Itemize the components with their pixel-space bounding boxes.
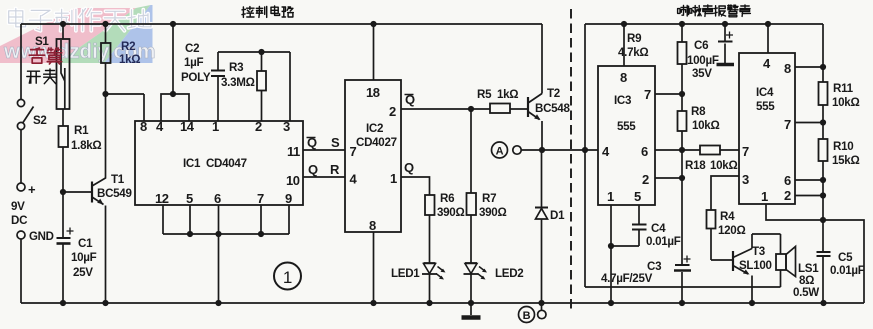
pin labels IC2 left [350,144,358,187]
resistor R4 [707,210,716,229]
watermark text dianzizhizuotiandi [9,9,151,31]
node R9 rail [679,21,685,27]
wire IC3 pin2 [655,177,682,179]
resistor R11 [819,67,828,139]
wire R2 to node [105,63,107,94]
svg-text:555: 555 [617,120,636,133]
svg-text:8: 8 [620,70,627,85]
svg-text:1kΩ: 1kΩ [119,53,140,66]
node pin7 R10 [820,119,826,125]
svg-text:S: S [331,135,340,150]
wire IC4 pin2 [795,195,823,197]
svg-text:BC549: BC549 [97,187,132,200]
svg-text:1.8kΩ: 1.8kΩ [71,139,101,152]
svg-text:1: 1 [607,189,614,204]
wire T1 collector [92,94,106,186]
speaker LS1 [776,247,796,288]
svg-text:CD4027: CD4027 [356,136,397,149]
wire IC4 pin1 ground [766,204,823,220]
svg-text:S2: S2 [33,114,47,127]
op-amp U1 IC1 CD4047 box [135,121,303,205]
label Qbar out [405,92,416,107]
node bracket [170,91,176,97]
svg-text:0.01µF: 0.01µF [830,264,865,277]
svg-text:LED1: LED1 [391,267,420,280]
node pin8 rail IC3 [621,21,627,27]
resistor R5 [490,104,510,114]
resistor R8 [678,94,687,131]
svg-text:1: 1 [761,189,768,204]
wire rail right corner [822,24,824,67]
svg-text:1µF: 1µF [184,56,204,69]
node C6 rail [722,21,728,27]
svg-text:T2: T2 [547,87,560,100]
op-amp U3 IC3 555 box [598,66,655,205]
wire feed down [172,24,174,94]
node D1 rail [538,300,544,306]
svg-text:1kΩ: 1kΩ [497,88,518,101]
node C5 rail [820,300,826,306]
svg-text:7: 7 [644,87,651,102]
svg-text:IC4: IC4 [756,86,774,99]
wire Qbar to R5 [401,108,490,110]
wire pin8 to rail [373,232,375,303]
op-amp U4 IC4 555 box [739,53,795,204]
node C1 rail [60,300,66,306]
node pin1 ground junction [820,217,826,223]
node pin1 C4 [608,243,614,249]
svg-text:1: 1 [390,171,397,186]
node pin6 junction [679,147,685,153]
capacitor C5 [817,252,831,303]
wire S1 stub [62,24,64,39]
node pin7 R9 R8 [679,91,685,97]
svg-text:3: 3 [742,172,749,187]
svg-text:B: B [523,310,531,322]
svg-text:555: 555 [756,100,775,113]
svg-text:8: 8 [784,61,791,76]
svg-text:6: 6 [641,144,648,159]
node S1 top [60,21,66,27]
svg-text:R8: R8 [691,105,706,118]
wire to IC1 pin8 [106,94,145,121]
transistor T1 [92,182,106,304]
svg-text:5: 5 [634,189,641,204]
svg-text:7: 7 [350,144,357,159]
svg-text:T1: T1 [111,173,125,186]
svg-text:7: 7 [742,144,749,159]
svg-text:7: 7 [784,117,791,132]
svg-text:2: 2 [389,104,396,119]
wire R18 to IC4 [720,149,739,151]
transistor T2 [528,24,542,150]
svg-text:10: 10 [286,173,300,188]
wire IC4 pin8 [795,66,823,68]
wire LED1 to rail [429,274,431,303]
svg-text:R9: R9 [627,32,642,45]
pin labels IC3 [602,70,651,204]
resistor R6 [425,195,435,215]
wire bracket pins 4 14 [161,94,189,121]
svg-text:T3: T3 [752,245,766,258]
wire S2 to battery+ [20,130,22,183]
node R3 top [258,49,264,55]
node C2R3 feed top [170,21,176,27]
wire Q2 to R [303,176,345,178]
wire bus to rail [218,234,220,303]
terminal battery + [17,183,25,191]
node pin8 R11 [820,64,826,70]
wire IC3 pin7 [655,93,682,95]
capacitor C2 R3 bus [218,51,290,53]
svg-text:SL100: SL100 [739,259,772,272]
diode D1 [535,150,548,303]
svg-text:+: + [28,182,36,197]
svg-text:12: 12 [155,191,169,206]
capacitor C4 [632,225,647,247]
node pin4 rail IC4 [765,21,771,27]
svg-text:Q: Q [404,160,414,175]
svg-text:15kΩ: 15kΩ [832,154,859,167]
node pin8 junction [102,91,108,97]
resistor R10 [819,139,828,161]
svg-text:C2: C2 [185,42,199,55]
svg-text:R7: R7 [482,192,496,205]
wire R1 down to C1 [62,147,64,238]
wire B stub [541,303,543,310]
wire IC1 bottom stubs [163,205,289,234]
resistor R3 [257,52,266,121]
svg-text:0.5W: 0.5W [793,286,819,299]
wire IC3 pin6 [655,149,700,151]
capacitor C3 [674,256,691,304]
wire base T1 [63,191,92,193]
svg-text:0.01µF: 0.01µF [646,235,681,248]
wire top rail right section [585,23,823,25]
node R2 top [102,21,108,27]
svg-text:R11: R11 [833,82,854,95]
wire bottom rail [21,302,864,304]
svg-text:7: 7 [257,191,264,206]
node LED2 rail [468,300,474,306]
resistor R7 [467,193,477,215]
node pin1 rail [608,300,614,306]
svg-text:GND: GND [29,231,54,243]
label kai-guan (switch) [27,69,57,84]
svg-text:8: 8 [369,218,376,233]
wire R6 to LED1 [429,215,431,263]
svg-text:9: 9 [285,191,292,206]
svg-text:DC: DC [11,214,28,227]
wire R2 stub [105,24,107,43]
node LED1 rail [426,300,432,306]
wire IC3 pin1 to rail [610,205,612,303]
svg-text:3: 3 [283,119,290,134]
svg-text:2: 2 [255,119,262,134]
label circled 1 [274,263,301,290]
node A circle [492,142,508,158]
svg-text:R1: R1 [74,124,89,137]
svg-text:IC3: IC3 [614,94,632,107]
svg-text:8: 8 [140,119,147,134]
node B circle [519,307,535,323]
svg-text:10kΩ: 10kΩ [710,159,737,172]
wire C4 return [611,245,639,247]
svg-text:25V: 25V [73,266,93,279]
wire left drop to S2 [20,24,22,99]
capacitor C6 [717,24,735,65]
wire GND to bottom rail [20,239,22,303]
svg-text:35V: 35V [692,67,712,80]
node T1 emitter rail [102,300,108,306]
wire R5 to T2 [510,108,528,110]
svg-text:390Ω: 390Ω [479,206,506,219]
wire IC4 pin3 to R4 [711,176,739,210]
svg-text:11: 11 [287,144,300,159]
watermark url www.dzdiy.com [3,40,156,63]
svg-text:R: R [330,162,340,177]
svg-text:4.7kΩ: 4.7kΩ [618,46,648,59]
resistor R2 [101,43,111,63]
svg-text:10kΩ: 10kΩ [692,119,719,132]
wire pin3 branch [289,52,291,121]
node bus dots [187,231,264,237]
svg-text:Q: Q [308,162,318,177]
label she-huang (reed) [29,48,61,64]
svg-text:5: 5 [186,191,193,206]
switch S2 [17,99,33,129]
svg-text:IC2: IC2 [366,122,383,135]
svg-text:C6: C6 [694,39,709,52]
pin labels IC2 right [389,104,397,186]
node T3 emitter rail [749,300,755,306]
separator dashed line [570,9,572,313]
pin labels IC4 [742,56,791,204]
wire R8 down [681,131,683,265]
wire pin18 to rail [373,24,375,80]
svg-text:A: A [496,146,504,158]
terminal A [513,146,521,154]
wire T3 collector to speaker [752,234,781,254]
svg-text:14: 14 [180,119,195,134]
resistor R9 [678,24,687,94]
svg-text:R2: R2 [121,40,135,53]
svg-text:390Ω: 390Ω [437,206,464,219]
svg-text:IC1 CD4047: IC1 CD4047 [183,157,247,170]
wire Q1 to S [303,149,345,151]
svg-text:6: 6 [214,191,221,206]
svg-text:1: 1 [212,119,219,134]
LED1 [422,263,446,280]
watermark pink triangle [0,8,136,63]
node R7 branch [468,106,474,112]
svg-text:10kΩ: 10kΩ [832,96,859,109]
svg-text:18: 18 [366,85,380,100]
label Q R [308,162,340,177]
terminal B [538,310,546,318]
node pin2 junction [679,175,685,181]
wire Q to R6 [401,177,430,195]
node pin6 junction IC4 [820,177,826,183]
label Qbar S [307,135,341,150]
pin labels IC1 right [286,144,300,188]
node pin18 rail [370,21,376,27]
capacitor C2 [211,52,225,121]
svg-text:10µF: 10µF [71,251,97,264]
op-amp U2 IC2 CD4027 box [345,80,401,232]
ground symbol [462,303,481,318]
svg-text:R18: R18 [685,159,706,172]
svg-text:R10: R10 [833,140,853,153]
node T2 emitter A [539,147,545,153]
svg-text:9V: 9V [11,200,25,213]
svg-text:R6: R6 [440,192,455,205]
capacitor C1 [57,228,74,244]
svg-text:R3: R3 [229,61,244,74]
svg-text:BC548: BC548 [535,102,570,115]
svg-text:LED2: LED2 [495,267,523,280]
watermark green triangle [57,5,151,63]
wire A to IC3 [521,149,598,151]
svg-text:R4: R4 [720,210,735,223]
wire R7 to LED2 [470,215,472,263]
title control-circuit (kong zhi dian lu) [242,6,293,17]
wire rail right end up [823,220,864,303]
svg-text:100µF: 100µF [687,54,719,67]
terminal GND [17,231,25,239]
resistor R1 [59,126,69,147]
svg-text:R5: R5 [477,88,492,101]
svg-text:2: 2 [642,172,649,187]
svg-text:120Ω: 120Ω [718,224,745,237]
svg-text:C4: C4 [651,222,666,235]
wire R7 branch down [470,109,472,193]
svg-text:D1: D1 [550,209,565,222]
wire LED2 to rail [470,274,472,303]
svg-text:C5: C5 [838,251,853,264]
node T1 base junction [60,189,66,195]
wire top rail left section [21,23,542,25]
node bus rail [215,300,221,306]
wire IC4 pin6 [795,179,823,181]
wire IC4 pin7 [795,122,823,124]
svg-text:S1: S1 [35,35,49,48]
node A rail junction [582,147,588,153]
resistor R18 [700,146,720,155]
wire C1 to rail [62,245,64,304]
svg-text:C1: C1 [78,237,93,250]
watermark blue triangle [104,5,153,63]
wire IC3 pin5 to C4 [638,205,640,224]
title horn-alarm (la jiu sheng bao jing sheng) [678,5,751,17]
wire R4 to T3 base [711,229,733,261]
transistor T3 [733,234,752,303]
node pin2 junction IC4 [820,192,826,198]
LED2 [464,263,488,280]
wire S1 to R1 [62,109,64,126]
wire pin8 stub IC3 [623,24,625,66]
node pin8 rail [370,300,376,306]
wire R10 down [822,161,824,252]
svg-text:1: 1 [283,268,292,287]
wire right supply drop [585,24,781,287]
pin labels IC1 bottom [155,191,292,206]
wire pin4 stub IC4 [767,24,769,53]
svg-text:POLY: POLY [181,71,211,84]
node C3 rail [679,300,685,306]
svg-text:2: 2 [784,188,791,203]
svg-text:4.7µF/25V: 4.7µF/25V [601,272,653,285]
svg-text:3.3MΩ: 3.3MΩ [221,76,255,89]
pin labels IC1 top [140,119,290,134]
reed switch S1 [57,39,70,109]
svg-text:6: 6 [784,173,791,188]
